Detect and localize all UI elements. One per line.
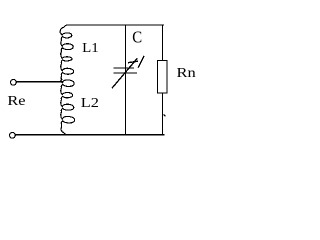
wire bottom horizontal <box>15 134 163 136</box>
inductor L2 <box>61 80 75 135</box>
svg-text:Re: Re <box>7 94 25 109</box>
capacitor C lower plate <box>114 72 136 74</box>
capacitor C upper plate <box>114 67 133 69</box>
inductor L1 <box>60 25 74 80</box>
wire tap from terminal Re to coil centre tap <box>16 81 63 83</box>
terminal top <box>11 79 17 85</box>
variable-capacitor arrow shaft <box>113 59 138 88</box>
wire right vertical lower <box>162 93 164 135</box>
svg-text:L1: L1 <box>82 41 99 56</box>
resistor Rn <box>157 60 167 93</box>
svg-text:L2: L2 <box>81 96 99 111</box>
svg-text:Rn: Rn <box>177 66 196 81</box>
svg-text:C: C <box>132 28 142 47</box>
wire top horizontal <box>71 24 164 26</box>
terminal bottom <box>10 132 16 138</box>
wire capacitor branch vertical <box>125 25 127 135</box>
junction tick on right branch <box>164 114 165 117</box>
wire right vertical upper <box>162 25 164 60</box>
arrowhead barb <box>129 61 138 62</box>
arrowhead stroke <box>139 56 144 67</box>
